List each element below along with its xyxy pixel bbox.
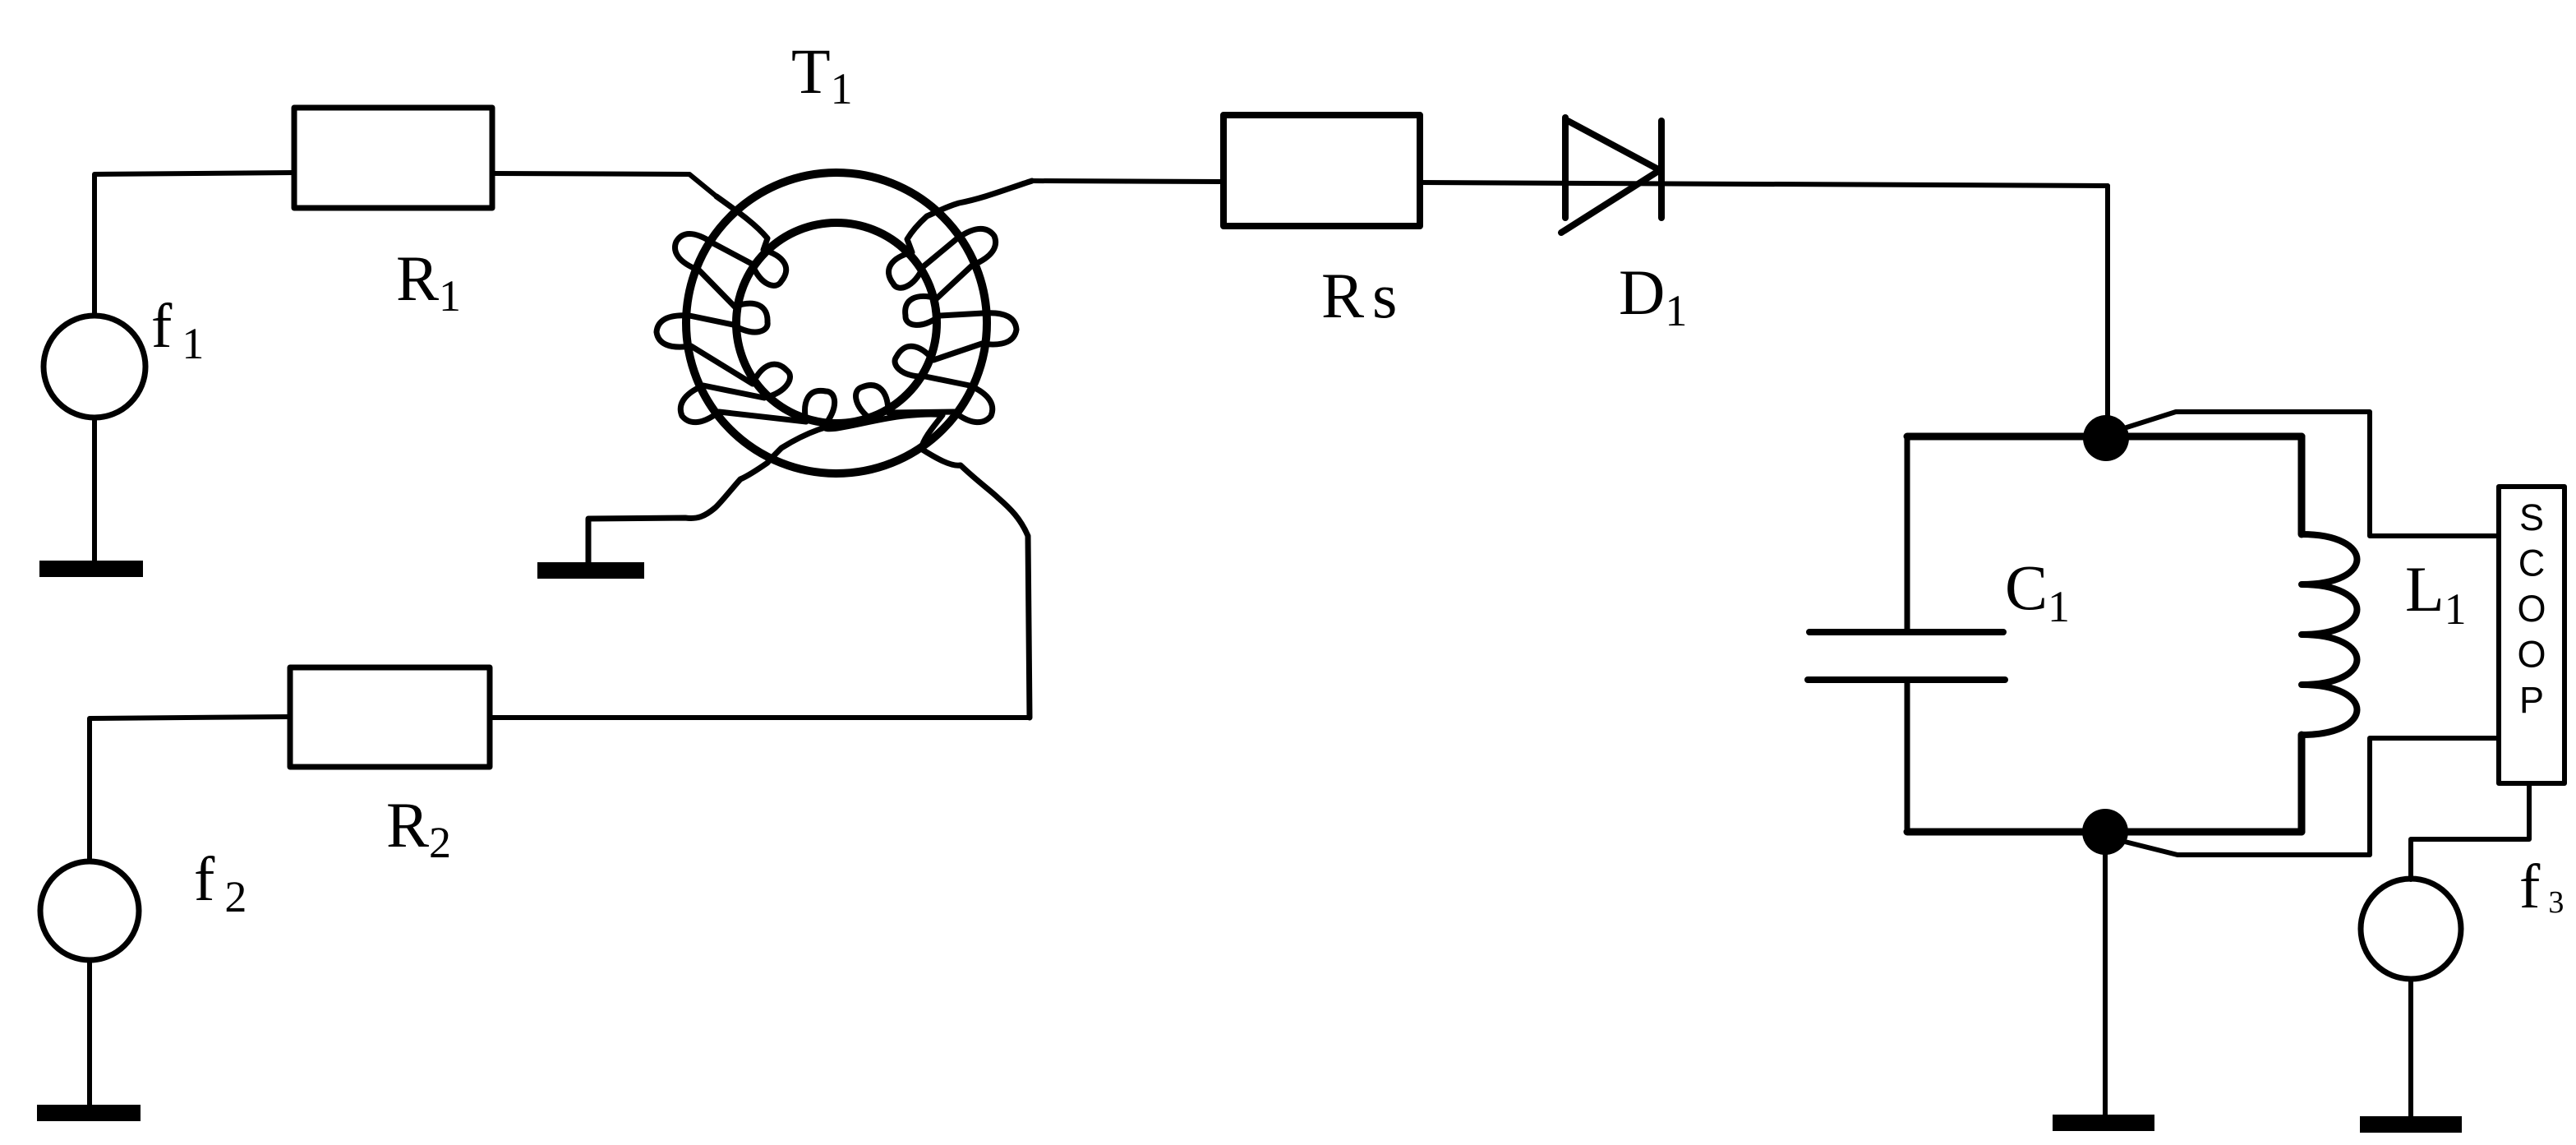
svg-text:L1: L1 (2405, 553, 2467, 634)
ground (37, 1105, 141, 1121)
source f3 (2361, 879, 2461, 979)
scope box (2499, 487, 2564, 783)
transformer T1 secondary winding (588, 181, 1032, 563)
transformer T1 core (686, 173, 987, 473)
svg-text:Rs: Rs (1321, 260, 1397, 331)
wire (2408, 979, 2413, 1118)
wire (492, 173, 717, 196)
resistor Rs (1223, 115, 1420, 226)
source f1 (44, 316, 145, 418)
wire (1907, 433, 2302, 441)
node B (2082, 809, 2128, 855)
wire (90, 717, 290, 861)
svg-text:SCOOP: SCOOP (2517, 496, 2546, 721)
inductor L1 (2302, 436, 2357, 832)
svg-text:T1: T1 (791, 35, 853, 113)
wire (1420, 182, 2108, 186)
svg-text:f3: f3 (2519, 852, 2564, 921)
wire (2103, 832, 2108, 1116)
ground (2360, 1116, 2462, 1133)
wire (94, 173, 294, 316)
ground (537, 562, 644, 579)
ground (2053, 1115, 2154, 1131)
wire (87, 960, 92, 1106)
ground (39, 561, 143, 577)
capacitor C1 (1808, 436, 2005, 832)
wire (490, 715, 1030, 720)
svg-text:D1: D1 (1619, 256, 1687, 335)
source f2 (40, 861, 139, 960)
wire (1907, 829, 2302, 836)
wire (1032, 181, 1223, 182)
svg-text:f2: f2 (194, 845, 247, 921)
diode D1 (1561, 118, 1661, 233)
transformer T1 primary winding (657, 196, 1030, 718)
svg-text:C1: C1 (2005, 552, 2070, 631)
wire (92, 418, 97, 562)
wire (2411, 783, 2529, 880)
resistor R1 (294, 108, 492, 208)
wire (2105, 186, 2110, 427)
node A (2083, 415, 2129, 461)
svg-text:R1: R1 (396, 242, 461, 321)
resistor R2 (290, 667, 490, 767)
svg-text:R2: R2 (386, 789, 451, 867)
wire (2125, 738, 2499, 855)
wire (2124, 412, 2499, 536)
svg-text:f1: f1 (151, 292, 204, 368)
